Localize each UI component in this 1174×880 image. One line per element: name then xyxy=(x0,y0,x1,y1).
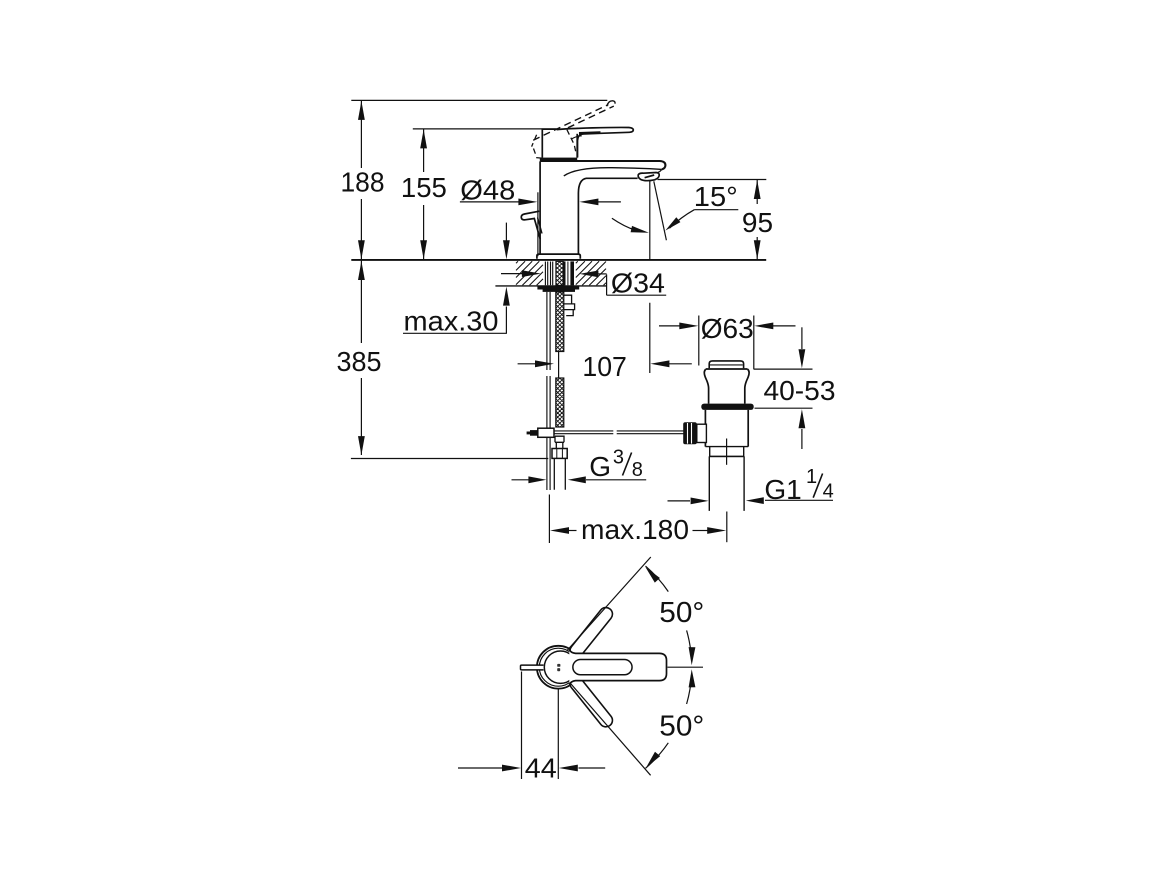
svg-text:Ø34: Ø34 xyxy=(611,268,665,299)
wire: counter top line xyxy=(351,259,766,261)
svg-text:G1: G1 xyxy=(764,474,801,505)
drain centerline ticks xyxy=(726,439,728,465)
50deg arc lower xyxy=(687,675,692,704)
40-53 arrows xyxy=(801,327,803,349)
horizontal pop-up linkage bar xyxy=(554,431,685,434)
top view: cartridge circle xyxy=(544,651,576,683)
top view: 50deg boundary line upper xyxy=(567,557,651,650)
check valve side fitting xyxy=(564,295,575,315)
flexible hose lower section xyxy=(556,378,564,427)
pop-up rod below counter xyxy=(547,292,550,490)
G3/8 dimension arrows xyxy=(512,479,529,481)
svg-text:1: 1 xyxy=(806,466,817,488)
wire: 15 deg slanted stream line xyxy=(654,181,667,240)
pop-up rod knob at rear xyxy=(521,211,540,239)
flexible hose upper section xyxy=(556,292,564,352)
mixer head right edge xyxy=(576,134,578,158)
44 dimension arrows xyxy=(458,767,503,769)
supply connection nut G3/8 xyxy=(552,449,567,459)
faucet base plate xyxy=(537,254,580,259)
top view: spout stub xyxy=(521,665,544,670)
svg-text:188: 188 xyxy=(341,167,385,198)
top view: handle straight position xyxy=(569,650,666,685)
drain flange xyxy=(706,368,748,370)
15 deg leader with arrow xyxy=(670,210,695,229)
mixer head left edge xyxy=(542,129,556,158)
107 dimension arrows xyxy=(518,363,536,365)
svg-text:50°: 50° xyxy=(659,711,704,743)
svg-text:50°: 50° xyxy=(659,597,704,629)
clamp screw xyxy=(530,430,538,436)
label 15deg underline xyxy=(694,209,738,211)
lever handle top edge xyxy=(557,127,634,133)
drain tailpipe G1 1/4 xyxy=(709,456,744,511)
Ø63 dimension arrows xyxy=(659,325,681,327)
15 deg arc with arrow xyxy=(612,218,641,232)
faucet top and spout top edge xyxy=(540,161,665,169)
drain knurled knob xyxy=(683,422,697,444)
top view: GROHE mark xyxy=(557,664,560,667)
faucet body left edge xyxy=(539,161,541,254)
escutcheon nut below counter xyxy=(537,286,579,290)
svg-text:3: 3 xyxy=(613,447,624,469)
svg-text:15°: 15° xyxy=(694,181,738,212)
spout aerator xyxy=(638,173,659,181)
svg-text:107: 107 xyxy=(582,351,627,382)
wire: lower reference line 385 datum xyxy=(351,458,548,460)
G1 1/4 arrows and underline xyxy=(668,500,691,502)
wire: vertical stream line xyxy=(649,181,651,373)
svg-text:8: 8 xyxy=(632,459,643,481)
50deg arc upper xyxy=(646,566,669,592)
wire: handle reference line 155 datum xyxy=(413,128,557,130)
drain plug cap xyxy=(709,361,743,368)
spout band lower line xyxy=(564,168,662,176)
svg-text:max.180: max.180 xyxy=(581,514,689,545)
top view: body outer ring xyxy=(537,646,580,689)
dimension 188 vertical line xyxy=(360,100,362,259)
svg-text:40-53: 40-53 xyxy=(764,375,836,406)
threaded hose braid column (counter) xyxy=(556,261,563,285)
drain body xyxy=(705,410,748,447)
top view: 50deg boundary line lower xyxy=(570,683,651,776)
mounting shank tube lines xyxy=(545,262,552,286)
drain knob collar xyxy=(697,424,707,442)
svg-text:155: 155 xyxy=(401,172,447,203)
40-53 extension lines xyxy=(754,369,813,408)
max.180 left extension line xyxy=(548,495,550,544)
svg-text:Ø63: Ø63 xyxy=(701,313,754,344)
spout outlet link xyxy=(658,170,662,173)
dashed raised handle outline xyxy=(533,105,608,141)
cartridge joint band xyxy=(540,158,577,161)
pop-up linkage clamp xyxy=(538,428,554,437)
wire: top reference line 188 datum xyxy=(351,99,607,101)
Ø48 dimension arrows xyxy=(460,201,520,203)
dimension 95 vertical line xyxy=(756,180,758,259)
svg-text:max.30: max.30 xyxy=(404,306,499,337)
Ø63 extension lines xyxy=(699,316,754,370)
Ø34 dimension arrows xyxy=(501,273,522,275)
dimension 385 vertical line xyxy=(360,261,362,456)
label max.30 underline xyxy=(403,332,507,334)
top view: horizontal centerline xyxy=(668,666,704,668)
max.30 arrows xyxy=(505,223,507,241)
svg-text:385: 385 xyxy=(337,346,382,377)
dashed handle tip hook xyxy=(607,101,615,106)
lever neck xyxy=(578,134,584,158)
drain rubber gasket xyxy=(701,404,753,410)
dimension 155 vertical line xyxy=(423,129,425,259)
svg-text:4: 4 xyxy=(823,481,834,503)
44 extension lines xyxy=(522,672,559,780)
supply pipe xyxy=(554,458,565,489)
drain coupling nut xyxy=(710,447,744,457)
hose end fitting xyxy=(555,436,564,448)
svg-text:44: 44 xyxy=(525,752,557,783)
wire: spout height reference line xyxy=(658,179,767,181)
max.180 dimension xyxy=(569,530,577,532)
hose break centerline xyxy=(558,352,560,379)
label Ø34 leader box xyxy=(607,275,667,296)
svg-text:95: 95 xyxy=(742,207,773,238)
faucet body right edge with spout fillet xyxy=(578,178,637,254)
wire: counter bottom line xyxy=(495,285,606,287)
Ø48 extension line left xyxy=(537,192,539,256)
shank right wall xyxy=(563,261,565,285)
top view: handle ghost position -50deg xyxy=(570,677,612,727)
top view: handle ghost position +50deg xyxy=(570,608,612,658)
counter cross-section hatching xyxy=(516,261,606,285)
svg-text:Ø48: Ø48 xyxy=(460,174,515,205)
lever underside shadow xyxy=(579,131,601,135)
svg-text:G: G xyxy=(589,451,611,482)
